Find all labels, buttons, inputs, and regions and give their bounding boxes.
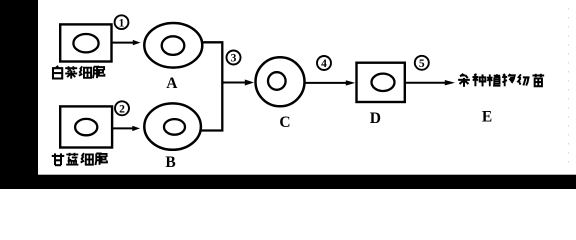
nucleus of A bbox=[162, 36, 185, 55]
nucleus of B bbox=[164, 119, 185, 135]
circled label ⑤ bbox=[415, 56, 429, 70]
nucleus of 甘蓝细胞 box bbox=[75, 119, 97, 135]
cell B (protoplast) bbox=[144, 103, 201, 149]
svg-text:4: 4 bbox=[321, 58, 327, 70]
arrow 3 (junction to C) bbox=[222, 80, 254, 86]
label 杂种植物幼苗 (hybrid plant seedling) bbox=[458, 74, 544, 87]
black bottom border bar bbox=[0, 175, 576, 189]
label 甘蓝细胞 bbox=[52, 153, 107, 165]
svg-text:D: D bbox=[370, 110, 381, 127]
nucleus of 白菜细胞 box bbox=[73, 34, 98, 52]
faint dotted right margin line bbox=[568, 8, 570, 170]
circled label ① bbox=[115, 15, 129, 29]
arrow 5 (D to seedling) bbox=[405, 80, 455, 85]
cell box D (hybrid cell) bbox=[357, 63, 405, 102]
circled label ② bbox=[115, 101, 129, 115]
arrow 2 (box to B) bbox=[112, 126, 140, 131]
svg-text:C: C bbox=[279, 114, 290, 131]
nucleus of C bbox=[268, 72, 286, 90]
svg-text:3: 3 bbox=[231, 53, 237, 65]
svg-text:E: E bbox=[482, 109, 492, 126]
arrow 1 (box to A) bbox=[112, 40, 141, 45]
arrow 4 (C to D) bbox=[305, 80, 356, 85]
nucleus of D bbox=[372, 74, 395, 91]
background white area bbox=[0, 0, 576, 189]
svg-text:5: 5 bbox=[419, 58, 425, 70]
svg-text:1: 1 bbox=[119, 17, 125, 29]
circled label ④ bbox=[317, 56, 331, 70]
circled label ③ bbox=[227, 51, 241, 65]
cell C (fused protoplast) bbox=[256, 57, 305, 106]
svg-text:A: A bbox=[166, 75, 178, 92]
wire from A to junction bbox=[201, 42, 222, 130]
svg-text:2: 2 bbox=[119, 104, 125, 116]
svg-text:B: B bbox=[165, 154, 175, 171]
label 白菜细胞 bbox=[53, 66, 104, 79]
cell box (白菜细胞) bbox=[60, 24, 111, 61]
black left border bar bbox=[0, 0, 38, 189]
cell A (protoplast) bbox=[144, 23, 202, 68]
cell box (甘蓝细胞) bbox=[60, 106, 112, 147]
